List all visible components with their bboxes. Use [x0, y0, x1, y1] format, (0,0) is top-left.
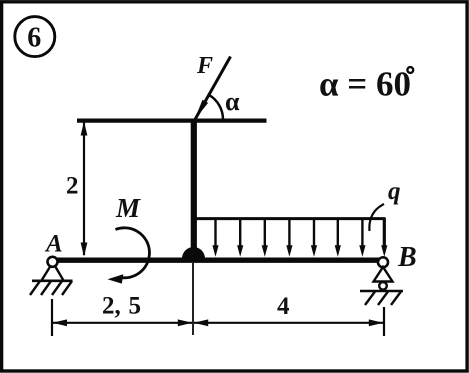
- extension line middle: [192, 263, 194, 335]
- svg-text:F: F: [196, 53, 213, 79]
- label A: [44, 231, 63, 258]
- dimension 2 vertical line: [81, 122, 88, 257]
- svg-text:5: 5: [129, 293, 142, 320]
- label 2,5: [102, 293, 141, 320]
- moment arc arrow: [108, 228, 150, 284]
- svg-text:4: 4: [277, 293, 290, 320]
- svg-text:M: M: [115, 193, 141, 223]
- svg-text:2: 2: [66, 173, 79, 200]
- distributed load arrows: [212, 218, 387, 257]
- roller support B: [360, 257, 403, 291]
- dimension line 4: [194, 319, 384, 326]
- distributed load q top line: [195, 217, 386, 220]
- svg-text:2,: 2,: [102, 293, 121, 320]
- q leader line: [369, 204, 384, 231]
- joint dome at post base: [182, 247, 205, 258]
- force F line: [195, 57, 231, 120]
- angle alpha arc: [209, 95, 223, 120]
- label 4: [277, 293, 290, 320]
- beam AB: [50, 258, 388, 263]
- label alpha = 60 deg: [319, 65, 413, 104]
- svg-text:A: A: [44, 231, 63, 258]
- distributed load left edge: [194, 218, 197, 250]
- svg-text:α: α: [225, 87, 240, 116]
- dimension line 2,5: [53, 319, 193, 326]
- label alpha (small): [225, 87, 240, 116]
- label M: [115, 193, 141, 223]
- label q: [388, 178, 401, 205]
- label B: [397, 242, 417, 273]
- vertical post: [191, 119, 197, 259]
- extension line left (A): [51, 299, 53, 336]
- svg-text:6: 6: [27, 23, 41, 54]
- svg-text:α = 60: α = 60: [319, 65, 411, 104]
- svg-text:B: B: [397, 242, 417, 273]
- label 2: [66, 173, 79, 200]
- extension line right (B): [383, 307, 385, 336]
- pin support A: [32, 257, 73, 281]
- label F: [196, 53, 213, 79]
- hatching ground A: [30, 281, 72, 295]
- problem number circle 6: [15, 17, 55, 57]
- hatching ground B: [365, 292, 401, 306]
- top horizontal line: [77, 118, 267, 122]
- force F arrowhead: [194, 100, 208, 121]
- svg-text:q: q: [388, 178, 401, 205]
